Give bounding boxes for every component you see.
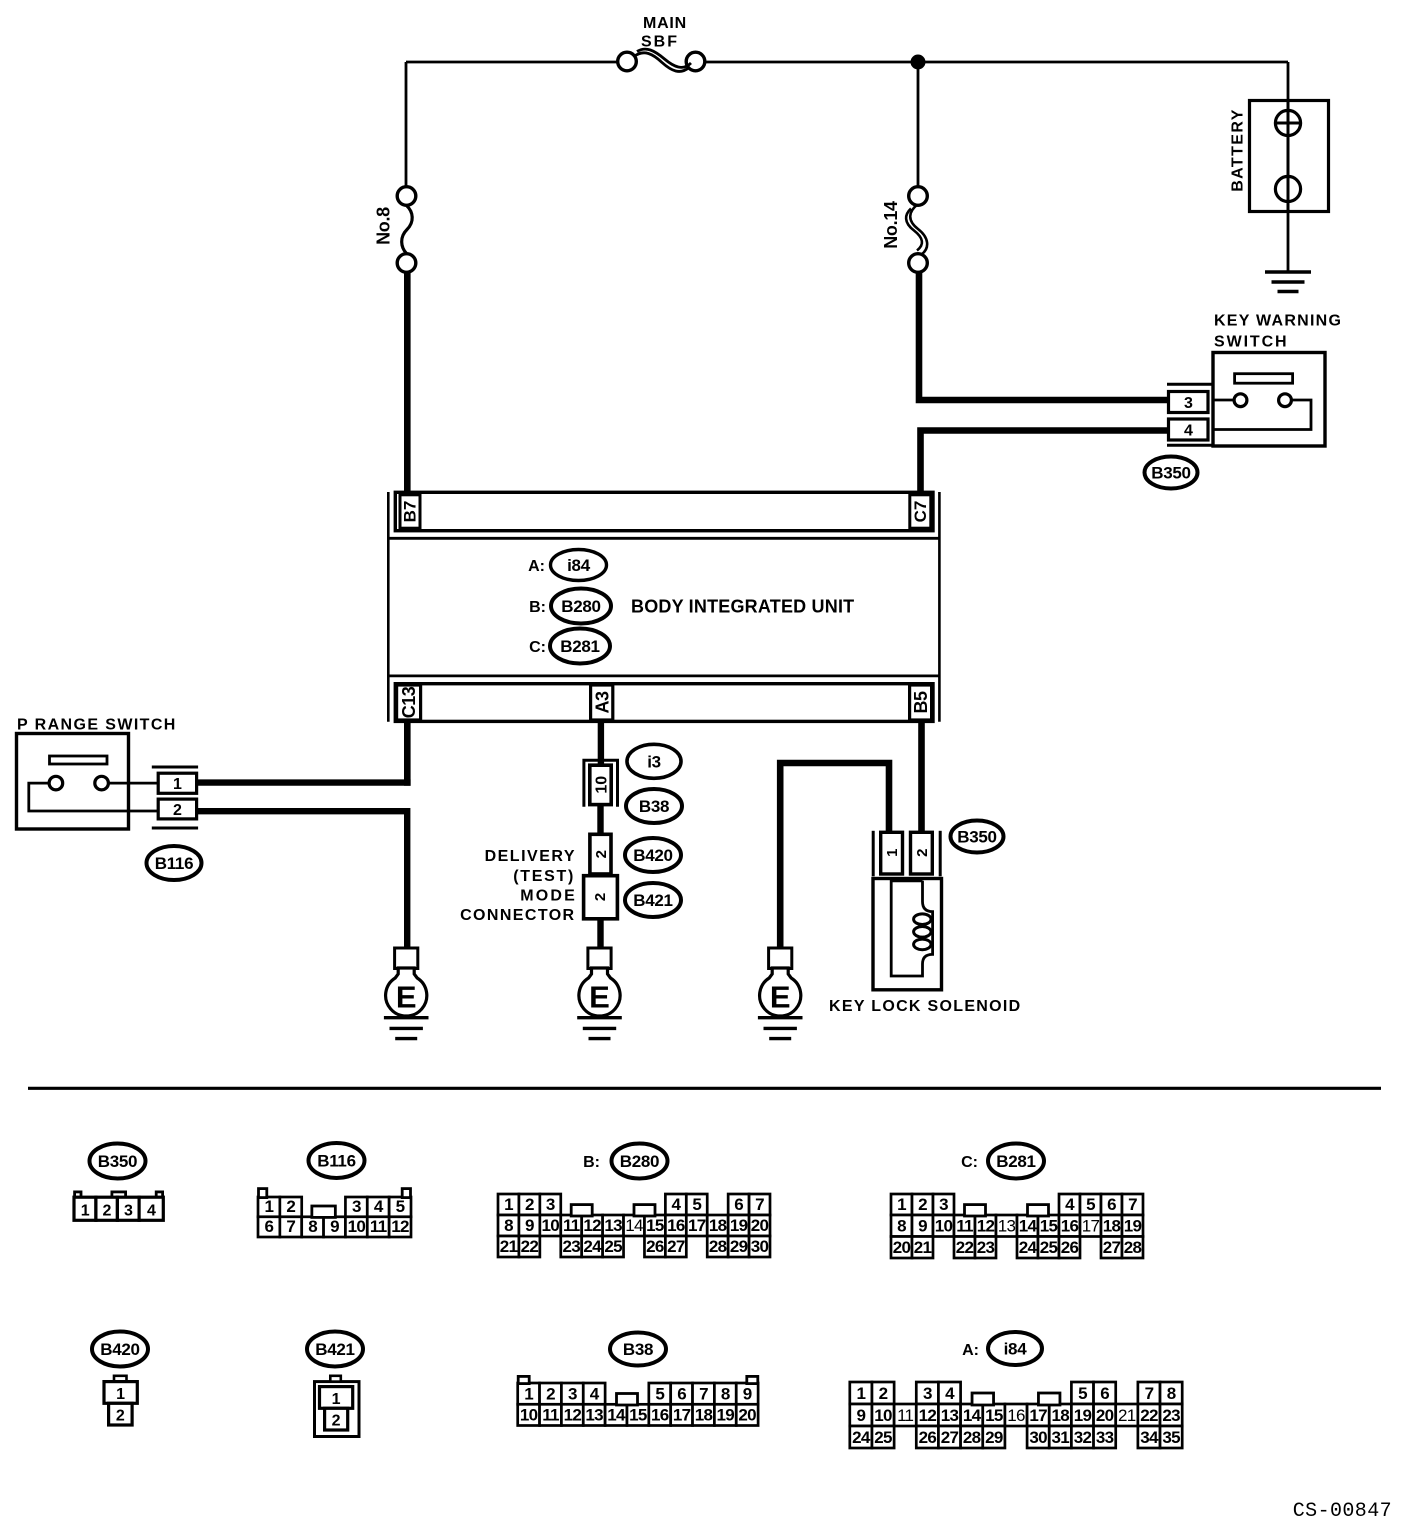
connector pin 2 B421 (584, 876, 618, 919)
connector B38 pin 12 (561, 1404, 583, 1425)
wire fuse No.14 to key warning switch pin 3 (thick) (919, 271, 1168, 400)
svg-text:CS-00847: CS-00847 (1293, 1500, 1392, 1523)
label C: B281 (unit connector C) (529, 629, 610, 664)
connector B280 pin 20 (749, 1215, 770, 1236)
wire C13 down (thick) (404, 721, 411, 786)
connector label B38 (pin diagram) (610, 1333, 666, 1366)
svg-text:24: 24 (1019, 1238, 1038, 1257)
svg-text:27: 27 (667, 1237, 685, 1256)
connector B280 pin 27 (665, 1236, 686, 1257)
connector B280 pin 2 (519, 1194, 540, 1215)
svg-text:5: 5 (1086, 1195, 1095, 1214)
svg-text:2: 2 (914, 849, 931, 857)
junction node battery bus / No.14 (911, 55, 925, 69)
label B: B280 (unit connector B) (529, 589, 611, 624)
svg-text:2: 2 (116, 1408, 125, 1425)
connector pin 2 B420 (590, 834, 611, 874)
connector B280 pin 17 (686, 1215, 707, 1236)
connector B116 pin 12 (389, 1217, 411, 1237)
svg-text:16: 16 (1007, 1406, 1025, 1425)
svg-text:KEY WARNING: KEY WARNING (1214, 313, 1342, 330)
svg-text:12: 12 (977, 1217, 995, 1236)
connector B38 pin 19 (714, 1404, 736, 1425)
svg-text:B421: B421 (633, 891, 672, 910)
connector label B420 (pin diagram) (92, 1332, 148, 1367)
connector B281 pin 25 (1038, 1237, 1059, 1259)
connector i84 pin 29 (983, 1426, 1005, 1448)
svg-text:12: 12 (583, 1216, 601, 1235)
svg-text:7: 7 (755, 1195, 764, 1214)
divider line between schematic and pin diagrams (28, 1087, 1381, 1090)
label B420 (schematic) (625, 838, 681, 872)
connector label B116 (pin diagram) (309, 1143, 365, 1178)
svg-text:10: 10 (542, 1216, 560, 1235)
connector B281 pin 14 (1017, 1215, 1038, 1237)
svg-text:E: E (770, 979, 791, 1014)
svg-text:30: 30 (1029, 1428, 1047, 1447)
connector i84 pin 6 (1094, 1382, 1116, 1404)
connector B116 pin 11 (367, 1217, 389, 1237)
connector B38 pin 5 (649, 1383, 671, 1404)
connector B116 tab (402, 1189, 410, 1198)
connector B421 tab (330, 1376, 341, 1382)
wire fuse No.8 to B7 (thick) (404, 271, 411, 492)
ground battery (1265, 272, 1311, 292)
svg-text:i84: i84 (1004, 1340, 1028, 1359)
svg-text:18: 18 (709, 1216, 727, 1235)
svg-text:1: 1 (81, 1203, 90, 1220)
connector B116 pin 5 (389, 1197, 411, 1217)
svg-text:2: 2 (879, 1384, 888, 1403)
svg-text:B116: B116 (155, 854, 194, 873)
svg-text:19: 19 (1124, 1217, 1142, 1236)
connector B281 pin 20 (891, 1237, 912, 1259)
connector i84 pin 24 (850, 1426, 872, 1448)
key lock solenoid coil (891, 881, 932, 976)
connector B281 pin 4 (1059, 1194, 1080, 1215)
svg-text:18: 18 (695, 1406, 713, 1425)
connector B38 pin 7 (693, 1383, 715, 1404)
fuse No.14 (906, 187, 927, 273)
connector B281 pin 16 (1059, 1215, 1080, 1237)
connector B280 pin 14 (624, 1215, 645, 1236)
svg-text:3: 3 (939, 1195, 948, 1214)
connector B281 pin 1 (891, 1194, 912, 1215)
connector B116 pin 8 (302, 1217, 324, 1237)
svg-text:23: 23 (1162, 1406, 1180, 1425)
connector i84 pin 14 (961, 1404, 983, 1426)
connector B281 pin 18 (1101, 1215, 1122, 1237)
svg-text:B38: B38 (623, 1340, 653, 1359)
svg-text:8: 8 (308, 1217, 317, 1236)
svg-text:4: 4 (1184, 423, 1193, 440)
svg-text:15: 15 (629, 1406, 647, 1425)
connector B280 pin 3 (540, 1194, 561, 1215)
connector B116 pin 3 (345, 1197, 367, 1217)
connector i84 pin 17 (1027, 1404, 1049, 1426)
svg-text:10: 10 (348, 1217, 366, 1236)
wire B421 to ground E2 (thick) (597, 919, 603, 948)
svg-text:10: 10 (520, 1406, 538, 1425)
connector B38 pin 9 (736, 1383, 758, 1404)
connector B350 pin 1 (74, 1197, 96, 1220)
connector label B350 (solenoid) (951, 821, 1004, 853)
connector B280 pin 7 (749, 1194, 770, 1215)
svg-text:1: 1 (332, 1391, 341, 1408)
svg-text:21: 21 (914, 1238, 932, 1257)
connector B280 pin 9 (519, 1215, 540, 1236)
connector i84 pin 25 (872, 1426, 894, 1448)
svg-text:17: 17 (688, 1216, 706, 1235)
svg-text:14: 14 (625, 1216, 643, 1235)
connector B116 pin 7 (280, 1217, 302, 1237)
connector i84 pin 30 (1027, 1426, 1049, 1448)
connector B281 pin 9 (912, 1215, 933, 1237)
svg-text:9: 9 (743, 1385, 752, 1404)
svg-text:18: 18 (1052, 1406, 1070, 1425)
connector B281 pin 13 (996, 1215, 1017, 1237)
svg-text:20: 20 (1096, 1406, 1114, 1425)
svg-text:26: 26 (919, 1428, 937, 1447)
connector B350 pin 4 (1169, 419, 1209, 440)
svg-text:2: 2 (546, 1385, 555, 1404)
svg-text:7: 7 (1145, 1384, 1154, 1403)
connector B280 pin 23 (561, 1236, 582, 1257)
connector B281 pin 15 (1038, 1215, 1059, 1237)
connector B350 tab (75, 1192, 81, 1198)
svg-text:3: 3 (1184, 395, 1193, 412)
connector i84 pin 11 (894, 1404, 916, 1426)
connector B116 bracket (152, 767, 198, 828)
svg-text:6: 6 (265, 1217, 274, 1236)
connector B281 pin 22 (954, 1237, 975, 1259)
solenoid connector bracket (873, 831, 940, 877)
svg-text:23: 23 (977, 1238, 995, 1257)
label B38 (schematic) (626, 789, 682, 823)
svg-text:25: 25 (874, 1428, 892, 1447)
connector i84 pin 1 (850, 1382, 872, 1404)
connector B280 pin 4 (665, 1194, 686, 1215)
label A: i84 (unit connector A) (528, 550, 606, 581)
connector B116 pin 2 (158, 799, 196, 819)
ground E1 (384, 948, 429, 1039)
connector i84 pin 16 (1005, 1404, 1027, 1426)
connector i84 pin 27 (938, 1426, 960, 1448)
connector B281 pin 11 (954, 1215, 975, 1237)
connector i84 pin 33 (1094, 1426, 1116, 1448)
svg-text:3: 3 (352, 1197, 361, 1216)
connector B38 pin 14 (605, 1404, 627, 1425)
svg-text:14: 14 (607, 1406, 626, 1425)
connector B38 pin 10 (518, 1404, 540, 1425)
connector B281 pin 27 (1101, 1237, 1122, 1259)
svg-text:19: 19 (730, 1216, 748, 1235)
svg-text:C:: C: (961, 1154, 978, 1171)
svg-text:28: 28 (1124, 1238, 1142, 1257)
connector B280 pin 6 (728, 1194, 749, 1215)
connector B280 pin 21 (498, 1236, 519, 1257)
svg-text:22: 22 (1140, 1406, 1158, 1425)
wire bus to fuse No.8 (405, 62, 408, 187)
svg-text:26: 26 (646, 1237, 664, 1256)
battery (1250, 101, 1329, 212)
svg-text:15: 15 (985, 1406, 1003, 1425)
connector i84 pin 15 (983, 1404, 1005, 1426)
svg-text:DELIVERY: DELIVERY (485, 848, 576, 865)
pin A3 (591, 685, 613, 720)
svg-text:4: 4 (671, 1195, 681, 1214)
svg-text:B350: B350 (957, 828, 996, 847)
connector i84 pin 35 (1160, 1426, 1182, 1448)
P range switch slider bar (50, 756, 108, 764)
svg-text:1: 1 (173, 776, 182, 793)
connector i84 pin 10 (872, 1404, 894, 1426)
connector B280 pin 16 (665, 1215, 686, 1236)
connector B350 pin 4 (139, 1197, 163, 1220)
connector B280 pin 29 (728, 1236, 749, 1257)
svg-text:5: 5 (655, 1385, 664, 1404)
connector B420 pin 1 (104, 1382, 137, 1404)
svg-text:17: 17 (673, 1406, 691, 1425)
svg-text:30: 30 (751, 1237, 769, 1256)
svg-text:B280: B280 (561, 597, 600, 616)
svg-text:11: 11 (897, 1406, 913, 1425)
connector B280 pin 28 (707, 1236, 728, 1257)
wire battery bus top horizontal (406, 61, 1288, 64)
wire battery to ground (1287, 211, 1290, 271)
svg-text:1: 1 (265, 1197, 274, 1216)
connector i84 pin 4 (938, 1382, 960, 1404)
solenoid connector pin 1 (881, 832, 903, 874)
svg-text:16: 16 (667, 1216, 685, 1235)
connector label B281 (pin diagram) (988, 1144, 1044, 1179)
connector B38 pin 20 (736, 1404, 758, 1425)
label DELIVERY (TEST) MODE CONNECTOR (460, 848, 577, 924)
connector B38 pin 3 (561, 1383, 583, 1404)
svg-text:19: 19 (1074, 1406, 1092, 1425)
key warning switch slider bar (1235, 374, 1293, 384)
wire solenoid pin 1 to ground E3 (thick) (780, 763, 889, 948)
svg-text:2: 2 (332, 1413, 341, 1430)
connector B116 keyway (312, 1206, 336, 1217)
svg-text:B5: B5 (911, 691, 931, 713)
svg-text:3: 3 (568, 1385, 577, 1404)
connector B38 pin 15 (627, 1404, 649, 1425)
connector i84 pin 28 (961, 1426, 983, 1448)
connector B421 pin 1 (320, 1387, 353, 1409)
wire P range switch pin 1 to C13 (thick) (197, 779, 411, 785)
connector B281 pin 10 (933, 1215, 954, 1237)
key lock solenoid coil turns (914, 914, 931, 925)
svg-text:9: 9 (330, 1217, 339, 1236)
svg-text:C7: C7 (911, 501, 930, 523)
svg-text:3: 3 (923, 1384, 932, 1403)
connector B280 pin 22 (519, 1236, 540, 1257)
connector i84 pin 34 (1138, 1426, 1160, 1448)
connector B38 tab (518, 1376, 529, 1383)
svg-text:1: 1 (884, 849, 901, 857)
svg-text:B281: B281 (560, 637, 599, 656)
connector B281 pin 8 (891, 1215, 912, 1237)
svg-text:24: 24 (852, 1428, 871, 1447)
svg-text:4: 4 (147, 1203, 156, 1220)
connector B280 pin 5 (686, 1194, 707, 1215)
svg-text:7: 7 (286, 1217, 295, 1236)
connector B38 pin 2 (540, 1383, 562, 1404)
connector i84 pin 13 (938, 1404, 960, 1426)
svg-text:B420: B420 (100, 1340, 139, 1359)
pin C13 (397, 685, 421, 720)
svg-text:23: 23 (562, 1237, 580, 1256)
connector B116 pin 6 (258, 1217, 280, 1237)
connector B421 pin 2 (325, 1408, 348, 1430)
svg-text:11: 11 (370, 1217, 387, 1236)
connector B420 pin 2 (109, 1403, 133, 1425)
svg-text:P RANGE SWITCH: P RANGE SWITCH (17, 717, 177, 734)
connector B280 pin 18 (707, 1215, 728, 1236)
connector B280 pin 25 (603, 1236, 624, 1257)
connector B280 pin 11 (561, 1215, 582, 1236)
connector i84 pin 21 (1116, 1404, 1138, 1426)
svg-text:5: 5 (1078, 1384, 1087, 1403)
connector i84 pin 12 (916, 1404, 938, 1426)
connector B280 pin 8 (498, 1215, 519, 1236)
label KEY WARNING SWITCH (1214, 313, 1342, 351)
connector B116 pin 2 (280, 1197, 302, 1217)
svg-text:2: 2 (592, 893, 609, 901)
svg-text:1: 1 (504, 1195, 513, 1214)
svg-text:20: 20 (738, 1406, 756, 1425)
wire A3 down (thick) (598, 721, 604, 766)
wire bus to battery (1287, 62, 1290, 101)
connector B116 pin 1 (158, 773, 196, 793)
svg-text:17: 17 (1029, 1406, 1047, 1425)
connector B281 pin 24 (1017, 1237, 1038, 1259)
svg-text:E: E (589, 979, 610, 1014)
connector pin 10 (i3/B38) (590, 765, 611, 804)
connector B281 pin 3 (933, 1194, 954, 1215)
svg-text:31: 31 (1052, 1428, 1070, 1447)
connector label B280 (pin diagram) (612, 1144, 668, 1179)
connector B38 pin 16 (649, 1404, 671, 1425)
connector B280 pin 12 (582, 1215, 603, 1236)
svg-text:6: 6 (734, 1195, 743, 1214)
connector B281 pin 26 (1059, 1237, 1080, 1259)
svg-text:2: 2 (918, 1195, 927, 1214)
connector i84 pin 23 (1160, 1404, 1182, 1426)
connector label B116 (147, 846, 202, 880)
svg-text:1: 1 (897, 1195, 906, 1214)
svg-text:26: 26 (1061, 1238, 1079, 1257)
svg-text:No.8: No.8 (374, 207, 394, 245)
connector i84 keyway (972, 1393, 994, 1405)
svg-text:9: 9 (856, 1406, 865, 1425)
svg-text:4: 4 (1065, 1195, 1075, 1214)
svg-text:CONNECTOR: CONNECTOR (460, 907, 575, 924)
svg-text:A:: A: (962, 1342, 979, 1359)
connector i84 pin 22 (1138, 1404, 1160, 1426)
svg-text:8: 8 (504, 1216, 513, 1235)
connector B280 pin 1 (498, 1194, 519, 1215)
svg-text:16: 16 (1061, 1217, 1079, 1236)
connector B116 pin 1 (258, 1197, 280, 1217)
svg-text:6: 6 (677, 1385, 686, 1404)
connector label B421 (pin diagram) (307, 1332, 363, 1367)
svg-text:E: E (396, 979, 417, 1014)
connector i84 pin 31 (1049, 1426, 1071, 1448)
svg-text:B280: B280 (620, 1152, 659, 1171)
svg-text:(TEST): (TEST) (513, 868, 575, 885)
svg-text:1: 1 (116, 1386, 125, 1403)
svg-text:A:: A: (528, 558, 545, 575)
svg-text:13: 13 (998, 1217, 1016, 1236)
svg-text:C13: C13 (399, 686, 419, 718)
connector B38 pin 11 (540, 1404, 562, 1425)
body integrated unit top connector strip (395, 492, 933, 530)
svg-text:10: 10 (935, 1217, 953, 1236)
svg-text:29: 29 (985, 1428, 1003, 1447)
connector B116 pin 10 (345, 1217, 367, 1237)
svg-text:12: 12 (564, 1406, 582, 1425)
key warning switch contacts and internal wires (1213, 394, 1311, 430)
svg-text:22: 22 (521, 1237, 539, 1256)
wire B5 down to solenoid pin 2 (thick) (918, 721, 925, 833)
connector i84 keyway (1038, 1393, 1060, 1405)
connector B116 tab (259, 1189, 267, 1198)
connector B38 pin 13 (583, 1404, 605, 1425)
connector B420 tab (114, 1376, 127, 1382)
connector B281 pin 12 (975, 1215, 996, 1237)
svg-text:14: 14 (963, 1406, 982, 1425)
svg-text:MAIN: MAIN (643, 15, 687, 32)
svg-text:7: 7 (1128, 1195, 1137, 1214)
svg-text:22: 22 (956, 1238, 974, 1257)
connector B350 pin 2 (96, 1197, 118, 1220)
connector i84 pin 3 (916, 1382, 938, 1404)
svg-text:13: 13 (941, 1406, 959, 1425)
svg-text:10: 10 (874, 1406, 892, 1425)
svg-text:35: 35 (1162, 1428, 1180, 1447)
connector B421 outer shell (315, 1382, 360, 1437)
svg-text:i84: i84 (567, 556, 591, 575)
svg-text:19: 19 (717, 1406, 735, 1425)
svg-text:21: 21 (500, 1237, 518, 1256)
svg-text:9: 9 (525, 1216, 534, 1235)
fuse MAIN SBF (618, 49, 705, 71)
connector B280 pin 15 (644, 1215, 665, 1236)
svg-text:20: 20 (751, 1216, 769, 1235)
svg-text:BODY INTEGRATED UNIT: BODY INTEGRATED UNIT (631, 597, 854, 617)
svg-text:29: 29 (730, 1237, 748, 1256)
connector B350 pin 3 (117, 1197, 139, 1220)
connector B281 pin 19 (1122, 1215, 1143, 1237)
svg-text:28: 28 (709, 1237, 727, 1256)
svg-text:27: 27 (941, 1428, 959, 1447)
svg-text:B7: B7 (401, 501, 420, 523)
fuse No.8 (397, 187, 416, 273)
svg-text:9: 9 (918, 1217, 927, 1236)
svg-text:13: 13 (604, 1216, 622, 1235)
wire pin10 to B420 (thick) (597, 804, 603, 835)
svg-text:1: 1 (856, 1384, 865, 1403)
solenoid connector pin 2 (911, 832, 933, 874)
connector B280 pin 19 (728, 1215, 749, 1236)
wire key warning switch pin 4 to C7 (thick) (921, 431, 1169, 493)
svg-text:34: 34 (1140, 1428, 1159, 1447)
svg-text:2: 2 (102, 1203, 111, 1220)
P range switch box (17, 734, 129, 830)
svg-text:1: 1 (524, 1385, 533, 1404)
